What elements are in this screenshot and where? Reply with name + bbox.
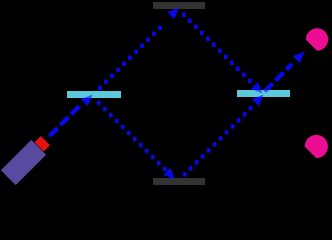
- laser body: [1, 133, 53, 185]
- wire bottom mirror to right splitter (dotted): [183, 106, 253, 176]
- detector D2 (bottom right): [305, 135, 328, 158]
- beam splitter BS1 translucent overlay: [67, 91, 121, 98]
- mirror M1 (top): [153, 2, 205, 9]
- arrowhead at right splitter (lower): [252, 91, 267, 106]
- arrowhead at bottom mirror: [163, 168, 178, 183]
- detector D1 (top right): [306, 28, 328, 50]
- arrowhead at detector 1: [293, 48, 308, 63]
- mirror M2 (bottom): [153, 178, 205, 185]
- mirror M2 translucent overlay: [153, 178, 205, 185]
- wire top mirror to right splitter (dotted): [182, 13, 252, 83]
- beam splitter BS2 translucent overlay: [237, 90, 290, 97]
- arrowhead at top mirror: [167, 4, 182, 19]
- beam splitter BS1 (left): [67, 91, 121, 98]
- wire splitter to top mirror (dotted): [98, 26, 162, 90]
- wire right splitter to detector 1 (dashed): [265, 64, 293, 92]
- arrowhead at right splitter (upper): [251, 82, 266, 97]
- arrowhead at left beam splitter: [81, 91, 96, 106]
- wire splitter to bottom mirror (dotted): [97, 101, 167, 171]
- wire laser beam (dashed): [50, 106, 81, 137]
- laser tip: [34, 136, 50, 152]
- Mach-Zehnder interferometer schematic: [0, 0, 332, 188]
- mirror M1 translucent overlay: [153, 2, 205, 9]
- beam splitter BS2 (right): [237, 90, 290, 97]
